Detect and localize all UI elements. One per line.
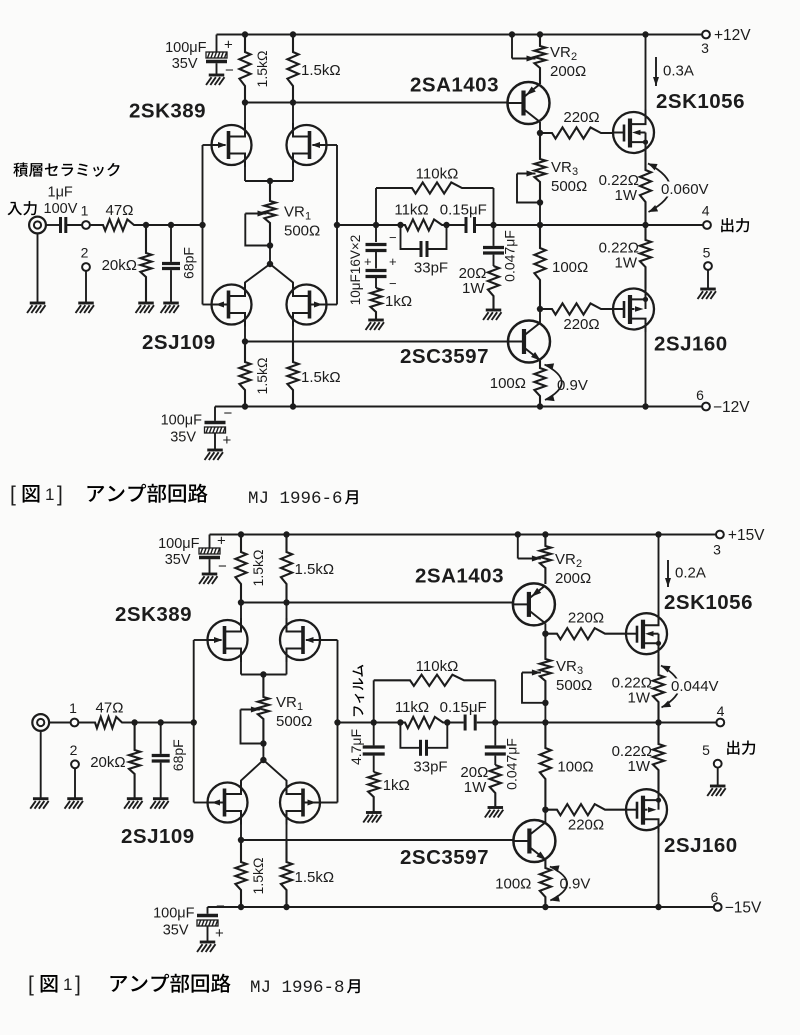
terminal 1: [71, 719, 79, 727]
node rail/right 1.5k: [283, 531, 289, 537]
wire drain line to 2SA1403 base: [245, 102, 508, 104]
svg-text:MJ 1996-8: MJ 1996-8: [250, 978, 345, 998]
wire -V rail: [215, 406, 702, 408]
svg-text:0.9V: 0.9V: [560, 876, 591, 893]
ground (bottom cap): [205, 450, 223, 460]
capacitor 0.15uF: [447, 217, 494, 233]
svg-text:4: 4: [702, 203, 710, 219]
label nyuuryoku (input): [7, 201, 36, 215]
svg-text:1kΩ: 1kΩ: [385, 293, 412, 310]
node source line: [238, 837, 244, 843]
svg-text:2SK389: 2SK389: [129, 100, 206, 123]
svg-text:+: +: [389, 254, 397, 269]
resistor 1k (fb): [368, 772, 379, 813]
label 100V: [44, 201, 78, 217]
svg-text:VR: VR: [556, 658, 577, 675]
label VR3 500ohm: [556, 677, 592, 694]
wire terminal 2 to ground: [85, 271, 87, 303]
label 1uF: [48, 185, 73, 201]
node VR3 bottom: [542, 700, 548, 706]
transistor 2SJ109 right half: [287, 283, 327, 327]
svg-text:110kΩ: 110kΩ: [416, 166, 459, 183]
resistor 110k (feedback): [376, 182, 494, 225]
label - (bottom cap): [224, 405, 233, 422]
svg-text:6: 6: [711, 889, 719, 905]
node rail right 1.5k bottom: [283, 904, 289, 910]
resistor 220 (lower): [545, 804, 626, 815]
resistor 20ohm 1W (zobel): [488, 266, 499, 310]
ground (jack): [30, 799, 48, 809]
label 100ohm emitter: [495, 876, 531, 893]
VR3 wiper: [517, 171, 540, 203]
node rail right 1.5k bottom: [290, 403, 296, 409]
label 1: [81, 203, 89, 219]
wire right gate stub J109: [320, 802, 338, 804]
capacitor 68pF: [162, 225, 180, 303]
potentiometer VR1 500ohm: [258, 675, 269, 744]
label 2: [81, 245, 89, 261]
svg-text:MJ 1996-6: MJ 1996-6: [248, 489, 343, 509]
node 220 tee (upper): [542, 631, 548, 637]
resistor 20ohm 1W (zobel): [490, 765, 501, 808]
arc 0.9V: [550, 865, 567, 901]
svg-text:2SA1403: 2SA1403: [415, 565, 504, 588]
node feedback/gate right: [334, 719, 340, 725]
node rail VR2 top: [537, 31, 543, 37]
label VR2 200ohm: [550, 63, 586, 80]
node input/gate left: [199, 222, 205, 228]
svg-text:3: 3: [713, 542, 721, 558]
node output/0.22: [655, 719, 661, 725]
wire split to left J109 drain: [241, 760, 263, 783]
label 100ohm upper: [552, 259, 588, 276]
terminal 4 (output): [716, 719, 724, 727]
label VR2: [550, 44, 577, 63]
label VR1 500ohm: [284, 223, 320, 240]
wire left K389 drain: [244, 103, 246, 126]
node rail/left 1.5k: [242, 31, 248, 37]
svg-text:2SK1056: 2SK1056: [656, 90, 745, 113]
wire terminal 5 to ground: [717, 768, 719, 786]
label - (fb cap top): [389, 230, 397, 245]
svg-text:1kΩ: 1kΩ: [383, 777, 410, 794]
svg-text:2SJ160: 2SJ160: [664, 834, 738, 857]
current arrow: [653, 57, 659, 86]
wire terminal 5 to ground: [707, 270, 709, 289]
svg-text:35V: 35V: [170, 430, 196, 446]
node fb cap top: [373, 222, 379, 228]
transistor 2SA1403 (PNP): [513, 583, 555, 625]
svg-text:0.15μF: 0.15μF: [440, 202, 487, 219]
node rail left 1.5k bottom: [242, 403, 248, 409]
label 1.5k right top: [295, 561, 335, 578]
label +V: [714, 27, 751, 44]
label 0.047uF (rotated): [503, 738, 519, 790]
node 220 tee (lower): [537, 306, 543, 312]
label 11kohm: [395, 699, 429, 716]
resistor 11k: [400, 717, 447, 728]
wire VR3 to output line: [539, 203, 541, 226]
node rail 2SJ160: [655, 904, 661, 910]
svg-text:+: +: [217, 533, 226, 550]
wire left J109 source down: [240, 823, 242, 841]
svg-text:1W: 1W: [615, 187, 638, 204]
svg-text:4.7μF: 4.7μF: [348, 729, 364, 765]
svg-text:110kΩ: 110kΩ: [416, 658, 459, 675]
label 2SA1403: [410, 74, 499, 97]
svg-text:100μF: 100μF: [158, 536, 200, 552]
resistor 0.22 1W (lower): [653, 723, 664, 790]
svg-text:+15V: +15V: [728, 527, 765, 544]
transistor 2SJ160 (P-ch MOSFET): [613, 286, 654, 332]
resistor 1.5k left (top): [239, 35, 250, 103]
svg-text:+: +: [364, 254, 372, 269]
label 2SJ109: [142, 331, 216, 354]
svg-text:1: 1: [297, 701, 303, 713]
label - (bottom cap): [216, 898, 225, 915]
label 0.15uF: [440, 202, 487, 219]
label 1.5k right bottom: [301, 369, 341, 386]
node rail/right 1.5k: [290, 31, 296, 37]
wire left gate stub K389: [194, 639, 208, 641]
svg-text:5: 5: [703, 245, 711, 261]
label 1k: [385, 293, 412, 310]
label - (top cap): [218, 558, 227, 575]
caption top: [zu 1] amp circuit: [10, 483, 208, 506]
ground (1k): [366, 320, 384, 330]
terminal 5: [714, 760, 722, 768]
potentiometer VR2 200ohm: [534, 35, 545, 85]
svg-text:+: +: [223, 432, 232, 449]
wire left K389 source to join: [244, 165, 246, 181]
label 2: [70, 742, 78, 758]
svg-text:35V: 35V: [163, 923, 189, 939]
resistor 0.22 1W (upper): [653, 654, 664, 722]
ground (zobel): [483, 310, 501, 320]
svg-text:100μF: 100μF: [161, 413, 203, 429]
label 2SC3597: [400, 846, 489, 869]
node source join / VR1: [260, 671, 266, 677]
wire source line to 2SC3597 base: [245, 341, 508, 343]
label + (fb cap mid left): [364, 254, 372, 269]
ground (terminal 5): [707, 786, 725, 796]
svg-text:2: 2: [70, 742, 78, 758]
svg-text:VR: VR: [551, 159, 572, 176]
label 220 lower: [568, 817, 604, 834]
label 0.9V: [560, 876, 591, 893]
ground (top cap): [199, 574, 217, 584]
svg-text:11kΩ: 11kΩ: [394, 202, 428, 219]
label -V: [725, 900, 762, 917]
label 1: [69, 700, 77, 716]
wire jack to terminal 1: [49, 722, 70, 724]
svg-text:2SK389: 2SK389: [115, 603, 192, 626]
terminal 1: [82, 221, 90, 229]
terminal 3 (+V): [716, 531, 724, 539]
svg-text:1: 1: [305, 211, 311, 223]
wire VR3 to output line: [544, 703, 546, 723]
label 2SK1056: [664, 591, 753, 614]
label 4: [717, 703, 725, 719]
svg-text:100Ω: 100Ω: [490, 375, 526, 392]
potentiometer VR1 500ohm: [264, 181, 275, 246]
svg-text:1: 1: [45, 485, 54, 504]
svg-text:35V: 35V: [172, 56, 198, 72]
transistor 2SK389 left half: [208, 618, 248, 662]
svg-text:1W: 1W: [628, 758, 651, 775]
transistor 2SJ109 right half: [280, 781, 320, 825]
node rail VR2 top: [542, 531, 548, 537]
node VR3 bottom: [537, 199, 543, 205]
node 47ohm/20k junction: [143, 222, 149, 228]
wire split to right J109 drain: [270, 264, 293, 285]
label + (top cap): [224, 37, 233, 54]
wire jack to ground: [40, 731, 42, 799]
svg-text:11kΩ: 11kΩ: [395, 699, 429, 716]
node source join / VR1: [267, 178, 273, 184]
svg-text:0.060V: 0.060V: [661, 181, 709, 198]
svg-text:1.5kΩ: 1.5kΩ: [250, 858, 266, 895]
label 1.5k right bottom: [295, 869, 335, 886]
label 2SK1056: [656, 90, 745, 113]
transistor 2SJ109 left half: [208, 781, 248, 825]
label - (top cap): [225, 62, 234, 79]
label 0.15uF: [440, 699, 487, 716]
node drain line left: [242, 99, 248, 105]
svg-text:500Ω: 500Ω: [284, 223, 320, 240]
label 5: [702, 742, 710, 758]
node source line: [242, 338, 248, 344]
wire collector 2SC3597: [544, 810, 546, 822]
svg-text:+: +: [224, 37, 233, 54]
svg-text:500Ω: 500Ω: [276, 713, 312, 730]
label 10uF16Vx2 (rotated): [348, 235, 363, 305]
svg-text:−: −: [389, 276, 397, 291]
label 68pF: [181, 247, 197, 279]
VR3 wiper: [522, 670, 545, 703]
svg-text:33pF: 33pF: [414, 260, 448, 277]
node VR1 bottom: [267, 242, 273, 248]
svg-text:+12V: +12V: [714, 27, 751, 44]
capacitor 10uF 16V x2 (series electrolytic): [366, 225, 387, 288]
svg-text:1.5kΩ: 1.5kΩ: [301, 369, 341, 386]
label 2SJ160: [654, 333, 728, 356]
wire source join: [245, 180, 293, 182]
capacitor 0.047uF: [483, 225, 504, 266]
capacitor 1uF 100V (input coupling): [61, 217, 66, 233]
wire right gate stub K389: [320, 639, 338, 641]
VR1 wiper: [241, 707, 264, 744]
VR1 wiper: [245, 211, 270, 246]
label 110kohm: [416, 658, 459, 675]
label VR3: [551, 159, 578, 178]
svg-text:2SA1403: 2SA1403: [410, 74, 499, 97]
svg-text:+: +: [215, 925, 224, 942]
wire fb node to 11k: [374, 722, 401, 724]
resistor 0.22 1W (upper): [640, 153, 651, 225]
svg-text:100V: 100V: [44, 201, 78, 217]
label 47ohm: [96, 700, 124, 717]
wire left J109 source down: [244, 325, 246, 342]
wire split to right J109 drain: [263, 760, 286, 783]
svg-text:−: −: [225, 62, 234, 79]
transistor 2SC3597 (NPN): [508, 321, 550, 363]
svg-text:]: ]: [57, 483, 63, 506]
label 1.5k left top (rotated): [254, 51, 270, 88]
label 1W upper: [628, 690, 651, 707]
svg-text:1W: 1W: [628, 690, 651, 707]
svg-text:6: 6: [696, 387, 704, 403]
label 47ohm: [106, 202, 134, 219]
svg-text:10μF16V×2: 10μF16V×2: [348, 235, 363, 305]
label + (bottom cap): [215, 925, 224, 942]
wire source line to 2SC3597 base: [241, 839, 513, 841]
transistor 2SA1403 (PNP): [508, 82, 550, 124]
svg-text:1μF: 1μF: [48, 185, 73, 201]
svg-text:100Ω: 100Ω: [557, 759, 593, 776]
svg-text:VR: VR: [276, 694, 297, 711]
node output/0.22: [642, 222, 648, 228]
svg-text:]: ]: [75, 973, 81, 996]
wire right J109 source down: [286, 823, 288, 863]
svg-text:200Ω: 200Ω: [555, 570, 591, 587]
svg-text:47Ω: 47Ω: [106, 202, 134, 219]
capacitor 100uF 35V (top): [199, 535, 220, 575]
svg-text:47Ω: 47Ω: [96, 700, 124, 717]
label 35V (top): [172, 56, 198, 72]
transistor 2SJ160 (P-ch MOSFET): [626, 787, 667, 833]
svg-text:1: 1: [69, 700, 77, 716]
node rail drain: [655, 531, 661, 537]
ground (20k): [136, 303, 154, 313]
capacitor 0.047uF: [485, 723, 506, 766]
node 11k left: [397, 222, 403, 228]
node 68p junction: [158, 719, 164, 725]
label 0.22 lower: [612, 743, 652, 760]
resistor 100 (emitter): [534, 361, 545, 407]
label 100ohm emitter: [490, 375, 526, 392]
svg-text:1W: 1W: [462, 280, 485, 297]
label 100uF (top): [165, 40, 207, 56]
label 100ohm upper: [557, 759, 593, 776]
svg-text:20kΩ: 20kΩ: [102, 257, 137, 274]
node output/VR3 column: [537, 222, 543, 228]
label 2SA1403: [415, 565, 504, 588]
label VR3 500ohm: [551, 178, 587, 195]
label 35V (bottom): [163, 923, 189, 939]
label - (fb cap bottom): [389, 276, 397, 291]
terminal 3 (+V): [702, 31, 710, 39]
wire right gates vertical: [337, 640, 339, 803]
label VR1: [276, 694, 303, 713]
ground (bottom cap): [197, 942, 215, 952]
wire output line: [494, 224, 703, 226]
svg-text:2SJ109: 2SJ109: [142, 331, 216, 354]
node 220 tee (lower): [542, 807, 548, 813]
svg-text:0.047μF: 0.047μF: [503, 738, 519, 790]
svg-text:220Ω: 220Ω: [568, 610, 604, 627]
label VR1 500ohm: [276, 713, 312, 730]
svg-text:−12V: −12V: [713, 399, 750, 416]
node rail VR2 wiper: [515, 531, 521, 537]
svg-text:3: 3: [572, 166, 578, 178]
label 0.047uF (rotated): [502, 230, 518, 282]
wire VR1 to split: [269, 246, 271, 265]
node drain line right: [290, 99, 296, 105]
svg-text:2: 2: [576, 558, 582, 570]
wire right gates vertical: [336, 145, 338, 305]
label source voltage: [660, 181, 710, 198]
label 1W lower: [615, 255, 638, 272]
svg-text:1.5kΩ: 1.5kΩ: [295, 561, 335, 578]
svg-text:0.044V: 0.044V: [671, 678, 719, 695]
wire right K389 source to join: [292, 165, 294, 181]
wire right K389 drain: [292, 103, 294, 126]
label 35V (top): [165, 552, 191, 568]
node emitter rail: [537, 403, 543, 409]
wire 2SA1403 collector: [539, 122, 541, 133]
label 220 upper: [563, 109, 599, 126]
label 0.22 upper: [612, 675, 652, 692]
svg-text:100Ω: 100Ω: [552, 259, 588, 276]
wire left gates vertical: [193, 640, 195, 803]
label 220 upper: [568, 610, 604, 627]
label 20kohm: [102, 257, 137, 274]
node output/VR3 column: [542, 719, 548, 725]
resistor 220 (upper): [540, 127, 613, 138]
capacitor 33pF (bypass): [401, 225, 447, 257]
resistor 0.22 1W (lower): [640, 225, 651, 289]
wire output line: [495, 722, 716, 724]
label 20ohm: [460, 764, 488, 781]
svg-text:33pF: 33pF: [413, 758, 447, 775]
label 33pF: [413, 758, 447, 775]
svg-text:68pF: 68pF: [181, 247, 197, 279]
caption bottom: MJ 1996-8: [250, 978, 360, 998]
node drain line left: [238, 599, 244, 605]
input RCA jack: [32, 714, 49, 731]
label + (top cap): [217, 533, 226, 550]
ground (zobel): [485, 808, 503, 818]
svg-text:VR: VR: [555, 551, 576, 568]
resistor 220 (lower): [540, 303, 613, 314]
svg-text:2: 2: [81, 245, 89, 261]
label 3: [701, 40, 709, 56]
label 1W lower: [628, 758, 651, 775]
svg-text:3: 3: [577, 665, 583, 677]
terminal 2: [82, 263, 90, 271]
svg-text:[: [: [10, 483, 16, 506]
label + (bottom cap): [223, 432, 232, 449]
arc source voltage: [648, 163, 670, 212]
label 5: [703, 245, 711, 261]
resistor 1.5k right (bottom): [281, 840, 292, 907]
wire to gate node: [161, 722, 194, 724]
resistor 47ohm: [90, 219, 146, 230]
label 1W (zobel): [462, 280, 485, 297]
label 68pF: [170, 739, 186, 771]
svg-text:0.9V: 0.9V: [557, 377, 588, 394]
svg-text:0.3A: 0.3A: [663, 63, 694, 80]
svg-text:1.5kΩ: 1.5kΩ: [250, 550, 266, 587]
node 11k right: [444, 719, 450, 725]
wire drain 2SK1056: [645, 35, 647, 113]
label -V: [713, 399, 750, 416]
svg-text:220Ω: 220Ω: [568, 817, 604, 834]
label 1W upper: [615, 187, 638, 204]
node rail VR2 wiper: [509, 31, 515, 37]
svg-text:−15V: −15V: [725, 900, 762, 917]
